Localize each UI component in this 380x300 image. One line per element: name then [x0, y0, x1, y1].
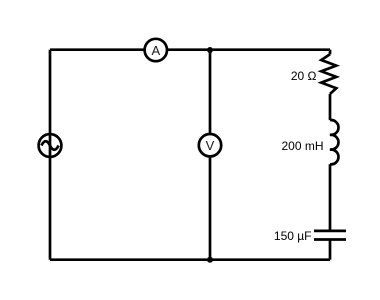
svg-text:20 Ω: 20 Ω [291, 69, 317, 83]
resistor R1 20 Ohm [321, 54, 336, 94]
AC source sine wave [41, 141, 58, 150]
wire between inductor and capacitor [329, 164, 332, 231]
svg-text:A: A [151, 43, 160, 58]
inductor L1 200 mH [330, 120, 338, 164]
wire left [49, 50, 52, 260]
svg-text:150 µF: 150 µF [274, 229, 312, 243]
wire below capacitor [329, 240, 332, 260]
svg-text:V: V [206, 138, 215, 153]
voltmeter M2 circle [199, 134, 221, 156]
wire right top segment [329, 50, 332, 55]
wire between resistor and inductor [329, 94, 332, 120]
wire middle branch [209, 50, 212, 260]
wire bottom [50, 258, 330, 261]
wire through AC source [49, 133, 52, 158]
junction node bottom [207, 257, 213, 263]
junction node top [207, 47, 213, 53]
capacitor C1 150 uF bottom plate [314, 238, 346, 241]
AC source V1 circle [39, 134, 62, 157]
svg-text:200 mH: 200 mH [281, 139, 323, 153]
capacitor C1 150 uF top plate [314, 230, 346, 233]
ammeter M1 circle [145, 39, 167, 61]
wire top: node A to node B [50, 48, 330, 51]
